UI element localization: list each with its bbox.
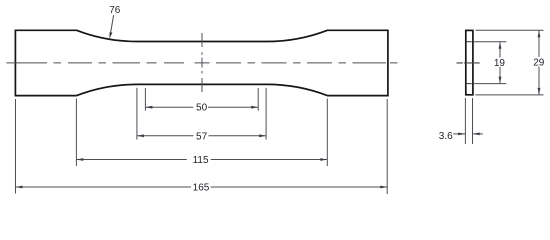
vertical centerline (front view) bbox=[201, 33, 203, 92]
specimen front view outline bbox=[15, 30, 388, 95]
svg-text:3.6: 3.6 bbox=[439, 131, 453, 142]
svg-text:76: 76 bbox=[109, 5, 121, 16]
svg-text:19: 19 bbox=[494, 58, 506, 69]
svg-text:57: 57 bbox=[196, 131, 208, 142]
extension line 3.6 right bbox=[472, 98, 474, 144]
extension line 165 right bbox=[386, 99, 388, 194]
dimension line 50 bbox=[145, 106, 193, 108]
dimension leader 3.6 left bbox=[453, 133, 465, 135]
extension line 165 left bbox=[15, 99, 17, 194]
extension line 50 right bbox=[257, 88, 259, 111]
extension line 19 lower bbox=[474, 83, 506, 85]
dimension leader 3.6 right bbox=[473, 133, 483, 135]
extension line 115 right bbox=[326, 99, 328, 167]
dimension line 19 bbox=[499, 42, 501, 58]
dimension line 29 bbox=[538, 30, 540, 57]
svg-text:115: 115 bbox=[193, 155, 209, 166]
horizontal centerline (front view) bbox=[6, 62, 397, 64]
hidden edge dash lower (end view) bbox=[467, 83, 472, 85]
svg-text:165: 165 bbox=[193, 183, 210, 194]
extension line 50 left bbox=[144, 88, 146, 111]
dimension line 165 bbox=[16, 186, 192, 188]
hidden edge dash upper (end view) bbox=[467, 41, 472, 43]
end view rectangle bbox=[466, 30, 473, 94]
leader line 76 bbox=[111, 15, 114, 33]
svg-text:50: 50 bbox=[196, 103, 208, 114]
extension line 115 left bbox=[75, 99, 77, 167]
dimension line 115 bbox=[76, 159, 186, 161]
svg-text:29: 29 bbox=[533, 57, 545, 68]
extension line 57 right bbox=[265, 88, 267, 140]
dimension line 57 bbox=[137, 135, 194, 137]
extension line 3.6 left bbox=[464, 98, 466, 144]
extension line 19 upper bbox=[474, 41, 506, 43]
extension line 29 lower bbox=[475, 94, 543, 96]
extension line 57 left bbox=[136, 88, 138, 140]
end view horizontal centerline bbox=[457, 62, 480, 64]
extension line 29 upper bbox=[476, 29, 544, 31]
